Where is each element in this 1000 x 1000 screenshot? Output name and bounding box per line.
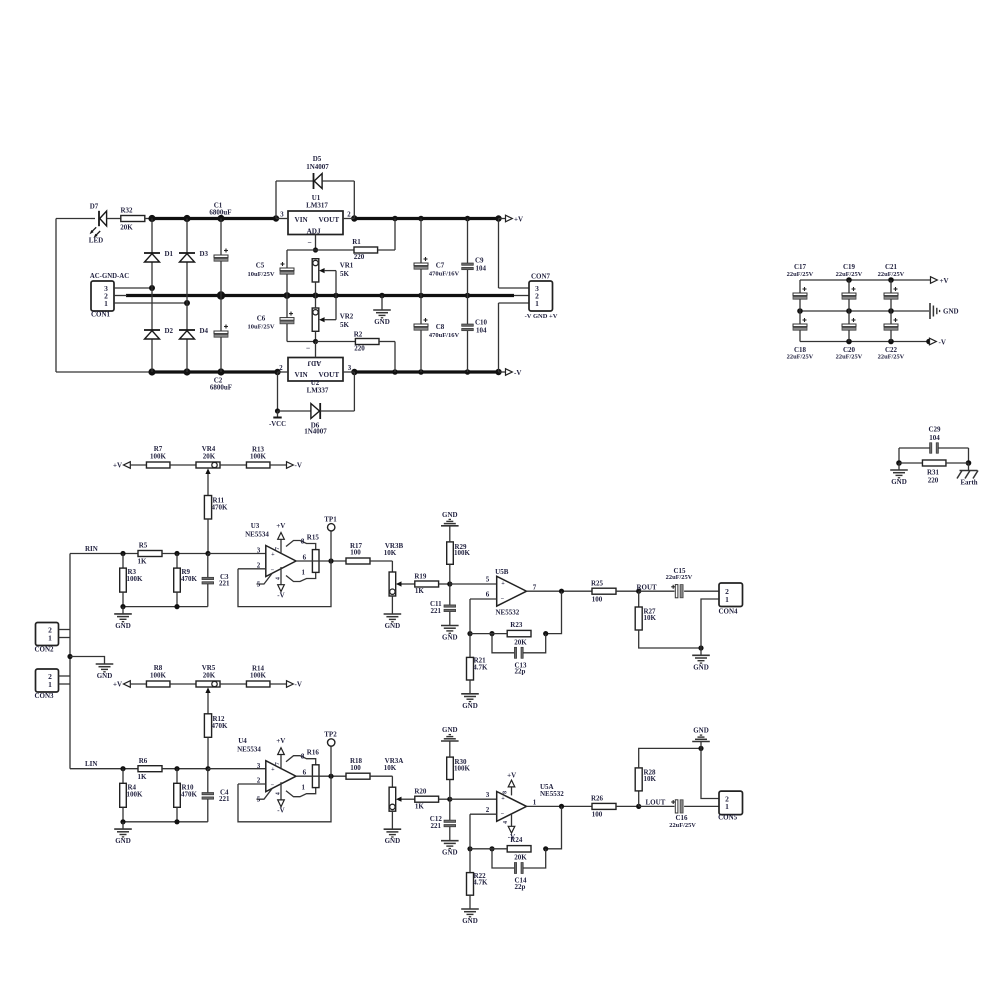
svg-text:TP1: TP1 (324, 516, 337, 524)
cap bank bottom -V rail (800, 341, 929, 343)
wire (170, 464, 196, 466)
svg-text:100K: 100K (150, 672, 167, 680)
capacitor C5 10uF/25V (287, 249, 316, 251)
svg-text:220: 220 (354, 253, 365, 261)
svg-text:D7: D7 (90, 203, 99, 211)
svg-text:8: 8 (301, 753, 305, 761)
svg-text:VR2: VR2 (340, 312, 354, 320)
pin 1 compensation wire (286, 572, 316, 581)
ground above connector (700, 742, 702, 749)
wire node to op-amp (450, 798, 497, 800)
wire (130, 464, 146, 466)
svg-text:+: + (501, 580, 505, 587)
svg-text:470K: 470K (212, 722, 229, 730)
pin 2 wire inverting (470, 813, 497, 815)
svg-text:100: 100 (350, 549, 361, 557)
capacitor C9 104 (467, 219, 469, 264)
wire to output node (616, 805, 639, 807)
svg-text:R6: R6 (139, 757, 148, 765)
svg-text:NE5532: NE5532 (540, 790, 564, 798)
op-amp U5A NE5532 (497, 792, 527, 822)
svg-text:VIN: VIN (295, 216, 309, 224)
power arrow -V bottom rail (499, 371, 506, 373)
trimmer VR5 20K (196, 681, 220, 687)
svg-text:+: + (271, 766, 275, 773)
ground below R22 (469, 895, 471, 909)
svg-text:100K: 100K (127, 790, 144, 798)
ground below trimmer VR3B (391, 596, 393, 614)
capacitor C29 104 (899, 447, 930, 449)
svg-text:7: 7 (533, 583, 537, 591)
svg-text:6: 6 (303, 554, 307, 562)
resistor R30 100K pull (447, 757, 454, 779)
test point TP2 (330, 746, 332, 776)
power symbol -VCC (277, 372, 279, 411)
svg-text:R31: R31 (927, 468, 940, 476)
svg-text:7: 7 (275, 762, 281, 765)
svg-text:10uF/25V: 10uF/25V (247, 324, 274, 331)
svg-text:1: 1 (535, 299, 539, 308)
resistor R19 1K (415, 581, 439, 587)
regulator U2 LM337 (288, 358, 343, 382)
power +V op-amp (280, 540, 282, 555)
op-amp U4 NE5534 (266, 761, 296, 792)
diode D3 (179, 252, 195, 254)
wire to op-amp pin3 (208, 768, 266, 770)
wire LED to R32 (107, 218, 121, 220)
wire top rail thin segment to LED (56, 218, 91, 220)
svg-text:-V: -V (939, 339, 946, 347)
svg-text:-V: -V (514, 369, 521, 377)
capacitor C6 10uF/25V (286, 296, 288, 318)
svg-text:470K: 470K (181, 790, 198, 798)
wire (270, 683, 287, 685)
svg-text:3: 3 (257, 762, 261, 770)
wire left loop vertical (55, 219, 57, 373)
diode D6 1N4007 (278, 410, 312, 412)
connector CON1 (91, 281, 114, 311)
resistor R18 100 (346, 773, 370, 779)
resistor R2 220 (316, 341, 356, 343)
svg-text:CON1: CON1 (91, 311, 111, 319)
wire CON3 pin2 (59, 675, 71, 677)
svg-text:221: 221 (219, 580, 230, 588)
ground symbol on mid rail (381, 296, 383, 311)
svg-text:1K: 1K (415, 802, 425, 810)
svg-text:GND: GND (943, 308, 959, 316)
svg-text:GND: GND (462, 917, 478, 925)
resistor R12 470K (207, 693, 209, 714)
trimmer VR4 20K (196, 462, 220, 468)
svg-text:R24: R24 (510, 836, 523, 844)
trimmer VR1 5K (312, 259, 319, 282)
svg-text:1K: 1K (138, 773, 148, 781)
svg-text:220: 220 (354, 345, 365, 353)
wire connector pin1 to tie (701, 599, 719, 648)
svg-text:4: 4 (503, 821, 509, 824)
capacitor C3 221 (207, 554, 209, 578)
power +V op-amp (280, 755, 282, 770)
svg-text:+V: +V (276, 737, 285, 745)
pin 5 stub (257, 574, 273, 585)
svg-text:10K: 10K (644, 614, 657, 622)
svg-text:6800uF: 6800uF (209, 209, 231, 217)
svg-text:D2: D2 (165, 327, 174, 335)
wire (162, 768, 208, 770)
resistor R10 470K (176, 769, 178, 784)
svg-text:10K: 10K (644, 775, 657, 783)
svg-text:CON4: CON4 (718, 608, 738, 616)
wire feedback to pin 6 (469, 599, 471, 634)
svg-text:D1: D1 (165, 250, 174, 258)
svg-text:20K: 20K (203, 671, 216, 679)
svg-text:LOUT: LOUT (646, 799, 666, 807)
diode D5 1N4007 (275, 181, 277, 219)
pin 8 compensation wire (286, 756, 316, 765)
svg-text:5: 5 (257, 796, 261, 804)
svg-text:22uF/25V: 22uF/25V (666, 574, 693, 581)
svg-text:R32: R32 (120, 207, 133, 215)
svg-text:22uF/25V: 22uF/25V (836, 354, 863, 361)
resistor R5 1K (138, 551, 162, 557)
svg-text:470uF/16V: 470uF/16V (429, 271, 460, 278)
resistor R24 20K feedback (507, 846, 531, 852)
svg-text:-VCC: -VCC (269, 421, 286, 428)
svg-text:10K: 10K (384, 764, 397, 772)
svg-text:-V: -V (295, 680, 302, 688)
svg-text:−: − (271, 567, 275, 574)
svg-text:104: 104 (476, 326, 487, 334)
ground sideways cap bank (929, 303, 931, 319)
svg-text:C17: C17 (794, 263, 807, 271)
svg-text:100K: 100K (454, 764, 471, 772)
svg-text:2: 2 (486, 806, 490, 814)
svg-text:C5: C5 (256, 261, 265, 269)
resistor R17 100 (346, 558, 370, 564)
wire (170, 683, 196, 685)
svg-text:4.7K: 4.7K (473, 879, 488, 887)
resistor R15 compensation (312, 550, 319, 573)
svg-text:GND: GND (374, 318, 390, 326)
regulator U1 LM317 (288, 211, 343, 235)
wire input bus vertical (69, 554, 71, 769)
svg-text:+: + (501, 795, 505, 802)
trimmer VR3B 10K (389, 572, 396, 596)
svg-text:VOUT: VOUT (319, 216, 340, 224)
svg-text:3: 3 (280, 212, 284, 219)
svg-text:+V: +V (276, 522, 285, 530)
wire U1 VOUT pin (343, 218, 354, 220)
capacitor C1 6800uF (220, 219, 222, 256)
svg-text:R23: R23 (510, 621, 523, 629)
svg-text:5: 5 (257, 580, 261, 588)
svg-text:C29: C29 (928, 426, 941, 434)
svg-text:470K: 470K (181, 575, 198, 583)
svg-text:C22: C22 (885, 346, 898, 354)
capacitor C18 22uF/25V (799, 311, 801, 324)
svg-text:GND: GND (442, 849, 458, 857)
svg-text:1: 1 (725, 595, 729, 604)
wire (130, 683, 146, 685)
output wire (296, 560, 346, 562)
power -V U5A (511, 813, 513, 828)
trimmer VR2 5K (312, 308, 319, 331)
wire R11 to input line (207, 519, 209, 554)
capacitor C16 22uF/25V output (639, 805, 675, 807)
ground tie wire (123, 821, 208, 823)
wire connector pin2 to tie (701, 748, 719, 798)
svg-text:LIN: LIN (85, 760, 97, 768)
svg-text:Earth: Earth (961, 480, 978, 487)
svg-text:-V: -V (277, 807, 284, 815)
trimmer VR3A 10K (389, 787, 396, 811)
svg-text:D3: D3 (200, 250, 209, 258)
op-amp U5B NE5532 (497, 576, 527, 606)
node pin3 junction (149, 285, 155, 291)
resistor R23 20K feedback (507, 630, 531, 636)
pin 2 wire (238, 783, 266, 785)
node VR2 R2 junction (313, 339, 318, 344)
svg-text:3: 3 (348, 365, 352, 372)
capacitor C17 22uF/25V (799, 280, 801, 293)
wire U1 VIN pin (276, 218, 288, 220)
resistor R6 1K (138, 766, 162, 772)
wire (220, 464, 247, 466)
wire to trimmer (370, 560, 392, 562)
connector CON3 (36, 669, 59, 692)
svg-text:C21: C21 (885, 263, 898, 271)
svg-text:ADJ: ADJ (307, 359, 321, 367)
resistor R8 100K (146, 681, 170, 687)
resistor R1 220 (316, 249, 355, 251)
svg-text:221: 221 (431, 607, 442, 615)
ground symbol input network (122, 822, 124, 829)
svg-text:22uF/25V: 22uF/25V (787, 271, 814, 278)
svg-text:R25: R25 (591, 580, 604, 588)
svg-text:R20: R20 (414, 788, 427, 796)
wire U2 ADJ pin (315, 342, 317, 358)
svg-text:10uF/25V: 10uF/25V (247, 271, 274, 278)
resistor R28 10K load (638, 791, 640, 807)
svg-text:22p: 22p (515, 668, 526, 676)
svg-text:LM317: LM317 (306, 201, 328, 209)
svg-text:4.7K: 4.7K (473, 663, 488, 671)
resistor R21 4.7K (469, 634, 471, 658)
diode D1 (144, 252, 160, 254)
svg-text:LED: LED (89, 237, 103, 245)
svg-text:100: 100 (592, 596, 603, 604)
svg-text:D4: D4 (200, 327, 209, 335)
pin 1 compensation wire (286, 788, 316, 797)
wire R28 to ground tie (639, 748, 701, 768)
svg-text:7: 7 (275, 547, 281, 550)
svg-text:−: − (306, 344, 310, 353)
connector CON7 (498, 219, 500, 289)
svg-text:GND: GND (693, 663, 709, 671)
svg-text:GND: GND (115, 622, 131, 630)
test point TP1 (330, 531, 332, 561)
svg-text:−: − (307, 238, 311, 247)
connector CON2 (36, 623, 59, 646)
junction dots on top rail (148, 215, 155, 222)
svg-text:VIN: VIN (295, 371, 309, 379)
wire to op-amp pin3 (208, 553, 266, 555)
capacitor C13 22p (492, 634, 514, 653)
connector CON4 (719, 583, 743, 607)
resistor R31 220 (896, 460, 902, 466)
power arrow -V row y=465 (287, 462, 294, 469)
svg-text:+V: +V (113, 680, 122, 688)
wire CON1 pin1 (114, 302, 187, 304)
svg-text:8: 8 (301, 537, 305, 545)
wire to trimmer (370, 775, 392, 777)
resistor R25 100 output (592, 588, 616, 594)
svg-text:1N4007: 1N4007 (304, 427, 327, 435)
resistor R3 100K (122, 554, 124, 569)
capacitor C12 221 (449, 799, 451, 820)
svg-text:VOUT: VOUT (319, 371, 340, 379)
resistor R32 20K (121, 216, 145, 222)
pin 2 wire (238, 568, 266, 570)
wire U2 VOUT pin (343, 371, 354, 373)
svg-text:2: 2 (347, 212, 351, 219)
wire CON1 pin2 to mid rail (114, 295, 127, 297)
junction dots on bottom rail (148, 368, 155, 375)
svg-text:6800uF: 6800uF (210, 384, 232, 392)
svg-text:R26: R26 (591, 795, 604, 803)
svg-text:VR1: VR1 (340, 261, 354, 269)
ground above R29 (449, 526, 451, 542)
ground tie wire (123, 606, 208, 608)
power arrow -V row y=684 (287, 681, 294, 688)
wire U1 ADJ pin (315, 235, 317, 251)
capacitor C19 22uF/25V (848, 280, 850, 293)
node pin1 junction (184, 300, 190, 306)
ground below C12 (449, 827, 451, 841)
capacitor C11 221 (449, 584, 451, 605)
svg-text:R15: R15 (307, 533, 320, 541)
svg-text:22p: 22p (515, 883, 526, 891)
svg-text:1: 1 (725, 802, 729, 811)
svg-text:22uF/25V: 22uF/25V (878, 271, 905, 278)
svg-text:C18: C18 (794, 346, 807, 354)
svg-text:GND: GND (115, 837, 131, 845)
capacitor C21 22uF/25V (890, 280, 892, 293)
wire R12 to input line (207, 737, 209, 768)
svg-text:3: 3 (486, 791, 490, 799)
svg-text:GND: GND (462, 702, 478, 710)
svg-text:22uF/25V: 22uF/25V (787, 354, 814, 361)
resistor R27 10K load (638, 591, 640, 607)
svg-text:220: 220 (928, 476, 939, 484)
pin 5 stub (257, 789, 273, 800)
svg-text:8: 8 (503, 791, 509, 794)
ground input connectors (70, 657, 105, 665)
resistor R22 4.7K (469, 849, 471, 873)
svg-text:22uF/25V: 22uF/25V (836, 271, 863, 278)
input wire (70, 768, 138, 770)
power -V op-amp (280, 782, 282, 802)
svg-text:NE5532: NE5532 (496, 609, 520, 617)
feedback loop down (546, 591, 562, 633)
svg-text:R5: R5 (139, 542, 148, 550)
svg-text:LM337: LM337 (307, 386, 329, 394)
svg-text:TP2: TP2 (324, 731, 337, 739)
diode D2 (144, 329, 160, 331)
svg-text:-V GND +V: -V GND +V (525, 313, 558, 320)
svg-text:C19: C19 (843, 263, 856, 271)
resistor R26 100 output (592, 803, 616, 809)
wire (220, 683, 247, 685)
svg-text:−: − (501, 811, 505, 818)
capacitor C7 470uF/16V (420, 219, 422, 264)
svg-text:104: 104 (476, 264, 487, 272)
svg-text:22uF/25V: 22uF/25V (669, 822, 696, 829)
resistor R13 100K (246, 462, 270, 468)
svg-text:CON2: CON2 (34, 645, 54, 653)
svg-text:GND: GND (442, 634, 458, 642)
svg-text:4: 4 (276, 792, 282, 795)
svg-text:2: 2 (257, 561, 261, 569)
svg-text:20K: 20K (514, 639, 527, 647)
ground below R21 (469, 680, 471, 694)
svg-text:1: 1 (301, 568, 305, 576)
wire CON1 pin3 (114, 287, 152, 289)
resistor R11 470K (207, 474, 209, 496)
wire CON2 pin1 (59, 637, 71, 639)
svg-text:R16: R16 (307, 749, 320, 757)
svg-text:GND: GND (693, 727, 709, 735)
svg-text:AC-GND-AC: AC-GND-AC (90, 273, 129, 280)
svg-text:1: 1 (48, 680, 52, 689)
junction dots on middle rail (217, 291, 225, 299)
resistor R14 100K (246, 681, 270, 687)
bottom -V rail thick (56, 371, 152, 373)
input wire (70, 553, 138, 555)
svg-text:CON3: CON3 (34, 692, 54, 700)
capacitor C2 6800uF (220, 296, 222, 332)
svg-text:+V: +V (113, 461, 122, 469)
connector CON5 (719, 791, 743, 815)
resistor R16 compensation (312, 765, 319, 788)
earth symbol (968, 463, 970, 471)
wire (270, 464, 287, 466)
capacitor C14 22p (492, 849, 514, 868)
pin 8 compensation wire (286, 541, 316, 550)
svg-text:100K: 100K (250, 672, 267, 680)
svg-text:U3: U3 (251, 522, 260, 530)
svg-text:RIN: RIN (85, 545, 98, 553)
wire feedback to pin 2 (469, 814, 471, 849)
svg-text:4: 4 (276, 577, 282, 580)
LED D7 (91, 218, 95, 220)
op-amp U3 NE5534 (266, 546, 296, 577)
svg-text:104: 104 (929, 434, 940, 442)
output wire (296, 775, 346, 777)
svg-text:100K: 100K (250, 453, 267, 461)
svg-text:20K: 20K (203, 452, 216, 460)
ground symbol input network (122, 607, 124, 614)
svg-text:100: 100 (350, 764, 361, 772)
svg-text:221: 221 (431, 822, 442, 830)
capacitor C4 221 (207, 769, 209, 793)
svg-text:R19: R19 (414, 573, 427, 581)
svg-text:1: 1 (48, 633, 52, 642)
cap bank top +V rail (800, 279, 931, 281)
svg-text:C9: C9 (475, 257, 484, 265)
svg-text:10K: 10K (384, 549, 397, 557)
wire U2 VIN pin (278, 371, 289, 373)
